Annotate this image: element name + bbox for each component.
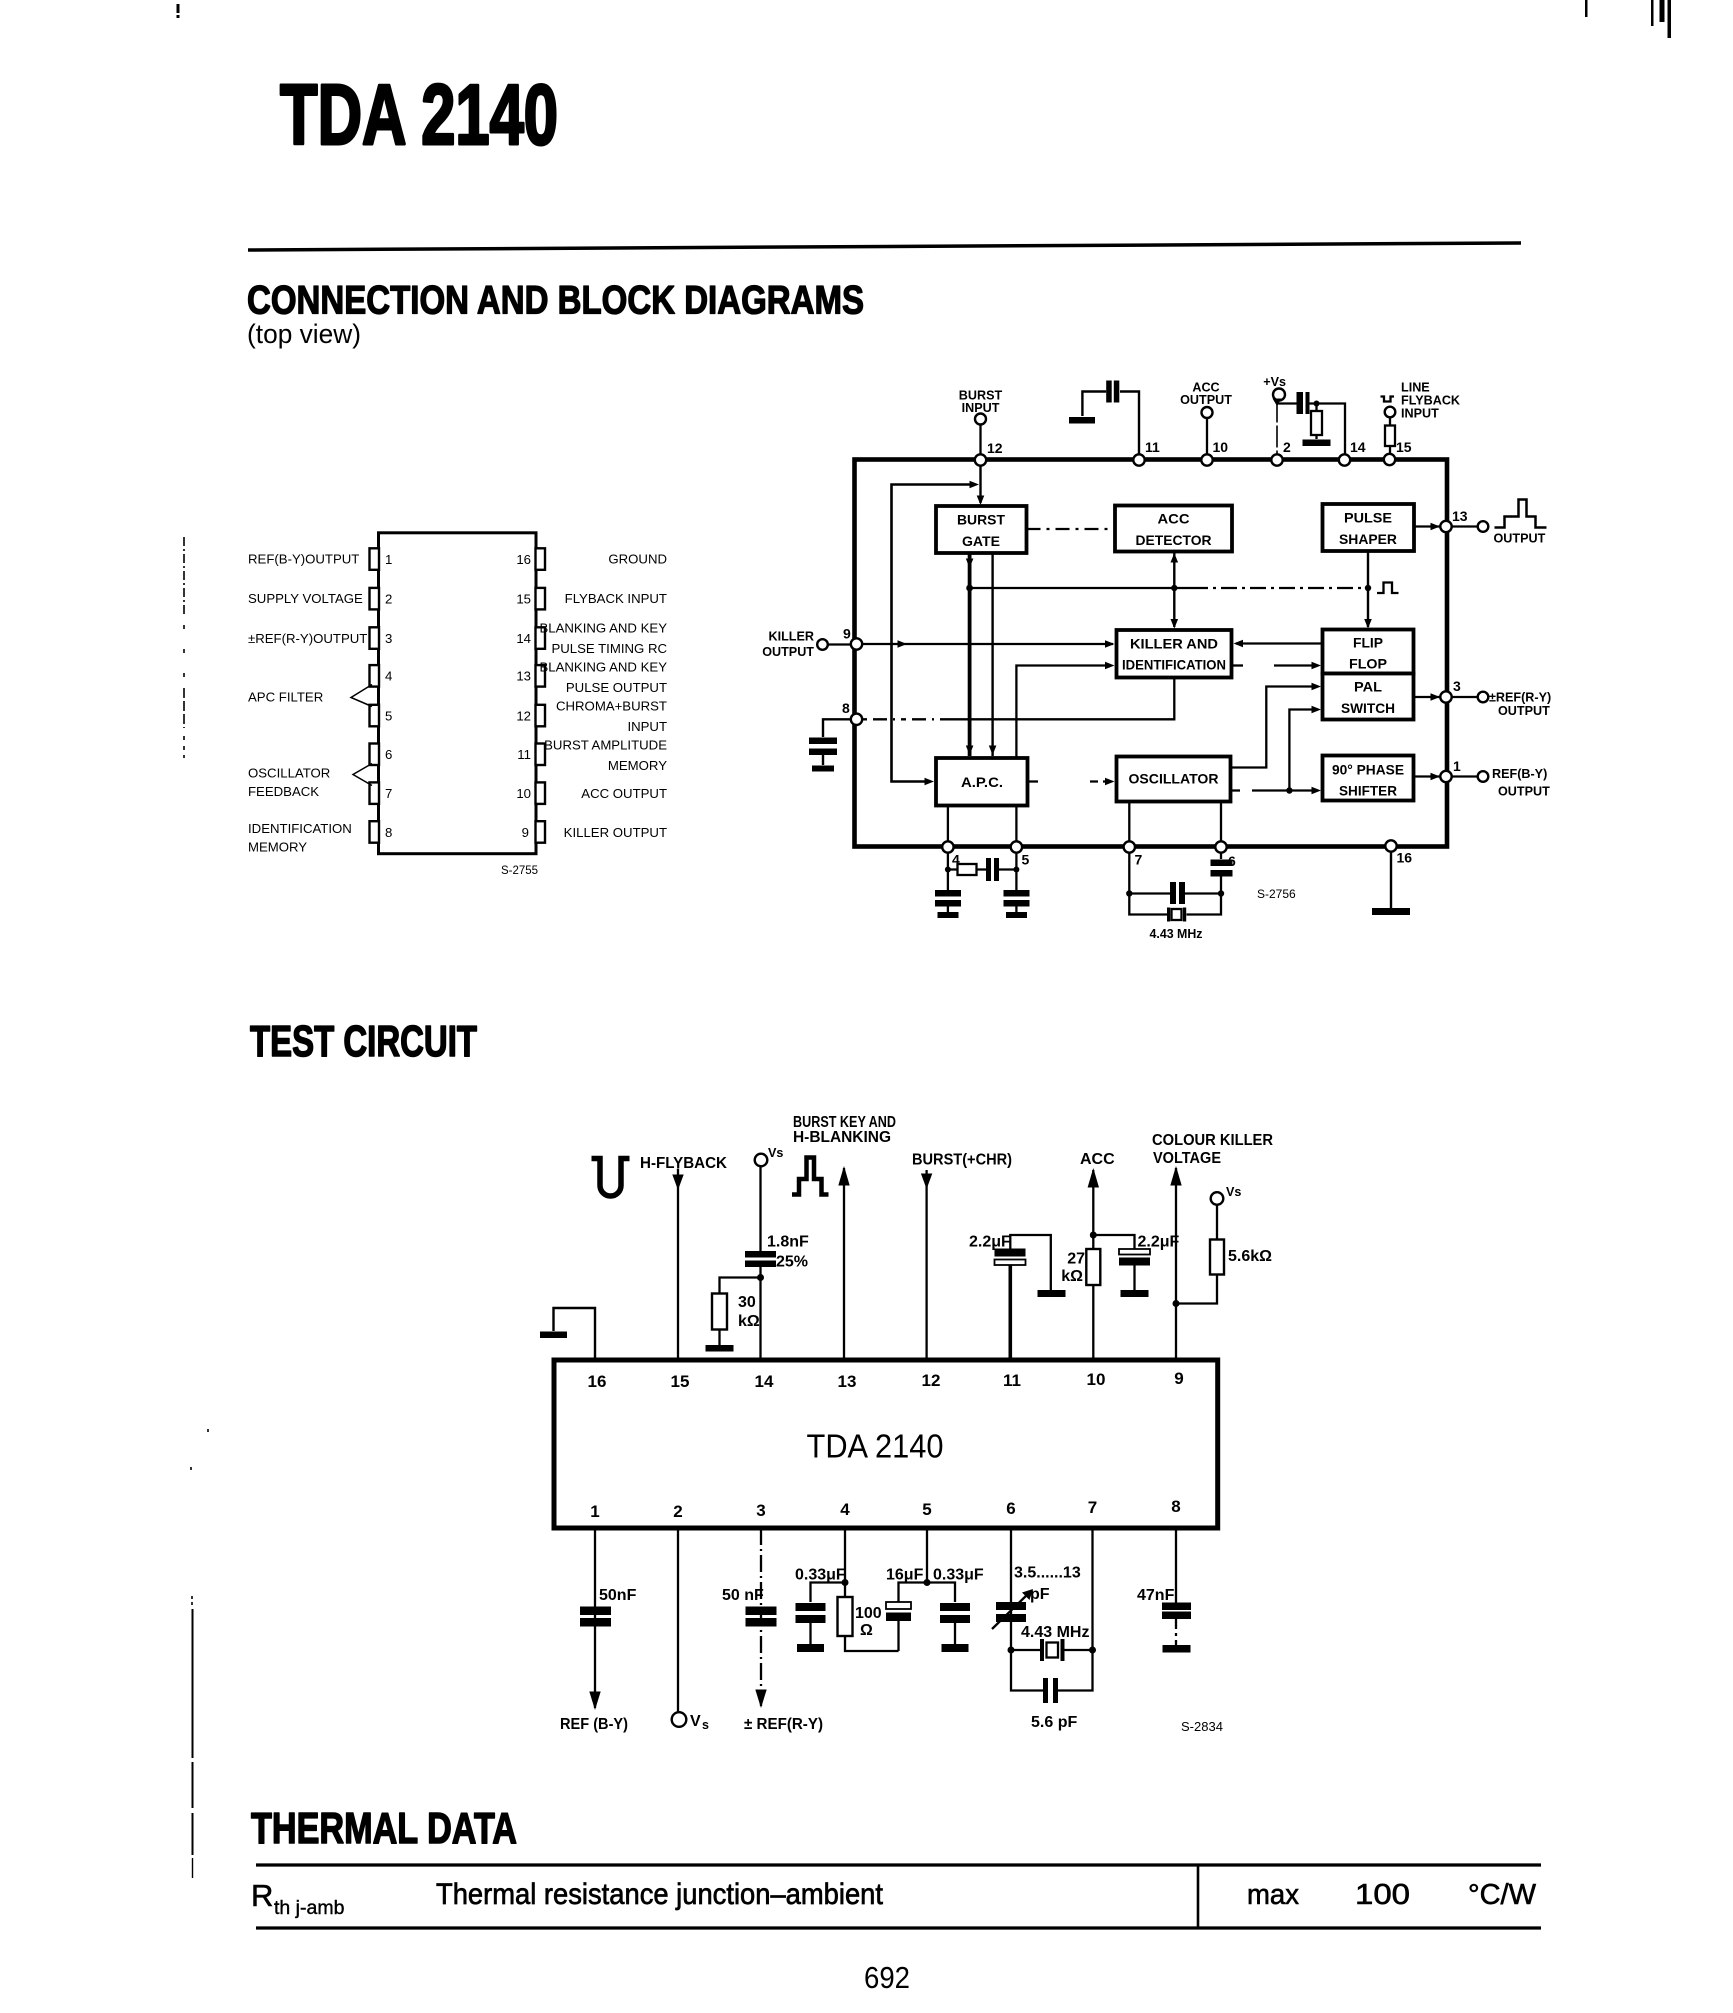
svg-text:LINE: LINE — [1401, 381, 1430, 395]
IC boundary outline — [855, 460, 1448, 847]
wire KILLER to FLIP FLOP lower — [1232, 662, 1322, 670]
svg-text:ACC: ACC — [1080, 1151, 1115, 1168]
svg-text:+Vs: +Vs — [1263, 375, 1286, 389]
junction dot at pin10 — [1090, 1232, 1097, 1239]
svg-text:50 nF: 50 nF — [722, 1587, 764, 1604]
pin circle 3 — [1440, 678, 1461, 703]
svg-text:FEEDBACK: FEEDBACK — [248, 784, 319, 799]
svg-text:TDA 2140: TDA 2140 — [280, 68, 558, 163]
svg-text:16μF: 16μF — [886, 1567, 924, 1584]
pin 9 — [536, 821, 546, 843]
wire PULSE SHAPER to FLIP FLOP — [1364, 551, 1372, 629]
svg-text:1: 1 — [590, 1502, 599, 1521]
block PULSE SHAPER — [1323, 504, 1415, 551]
svg-text:8: 8 — [385, 825, 392, 840]
svg-text:2.2μF: 2.2μF — [1138, 1234, 1180, 1251]
pin circle 14 — [1339, 439, 1366, 466]
svg-text:H-BLANKING: H-BLANKING — [793, 1129, 891, 1146]
pin 14 — [536, 627, 546, 649]
terminal +Vs — [1263, 375, 1286, 455]
terminal Vs at pin 14 — [755, 1146, 784, 1251]
svg-text:2: 2 — [385, 592, 392, 607]
wire OSCILLATOR to PAL SWITCH upper — [1231, 683, 1322, 768]
pin 12 — [536, 705, 546, 727]
svg-text:± REF(R-Y): ± REF(R-Y) — [744, 1716, 823, 1733]
terminal LINE FLYBACK INPUT — [1385, 381, 1460, 421]
wire burst gate key line to pulse shaper column — [970, 585, 1372, 591]
svg-text:S-2755: S-2755 — [501, 865, 538, 877]
wire pin9 to KILLER AND IDENTIFICATION — [862, 640, 1115, 648]
label pin14 BLANKING AND KEY PULSE TIMING RC — [539, 621, 667, 657]
svg-text:COLOUR KILLER: COLOUR KILLER — [1152, 1132, 1273, 1149]
svg-text:KILLER: KILLER — [769, 630, 814, 644]
junction dot at pin9 — [1173, 1300, 1180, 1307]
svg-text:GROUND: GROUND — [608, 552, 667, 567]
svg-text:5: 5 — [1022, 852, 1030, 868]
svg-text:PULSE TIMING RC: PULSE TIMING RC — [551, 641, 667, 656]
svg-text:0.33μF: 0.33μF — [933, 1567, 984, 1584]
svg-text:V: V — [690, 1713, 701, 1730]
left margin dashed line upper — [183, 537, 185, 758]
pin 6 — [370, 744, 380, 766]
pin5 network 16uF and 0.33uF — [886, 1528, 984, 1586]
wire FLIP FLOP to KILLER right edge — [1234, 640, 1323, 648]
svg-text:14: 14 — [516, 631, 531, 646]
svg-text:10: 10 — [1213, 439, 1229, 455]
svg-text:11: 11 — [1145, 439, 1160, 455]
svg-text:DETECTOR: DETECTOR — [1136, 532, 1212, 548]
block 90 PHASE SHIFTER — [1323, 756, 1414, 801]
svg-text:1: 1 — [385, 552, 392, 567]
label pin11 BURST AMPLITUDE MEMORY — [544, 738, 667, 774]
pin circle 12 — [975, 440, 1003, 466]
svg-text:50nF: 50nF — [599, 1587, 637, 1604]
svg-text:s: s — [702, 1718, 709, 1732]
capacitor to ground at pin 8 — [809, 719, 851, 765]
block OSCILLATOR — [1117, 757, 1231, 802]
wire APC to KILLER lower input — [1016, 662, 1114, 757]
svg-text:Ω: Ω — [860, 1622, 873, 1639]
svg-text:10: 10 — [1087, 1370, 1106, 1389]
svg-text:4.43 MHz: 4.43 MHz — [1021, 1624, 1089, 1641]
fork APC FILTER to pins 4 and 5 — [351, 685, 372, 707]
svg-text:pF: pF — [1030, 1586, 1050, 1603]
svg-text:7: 7 — [1088, 1498, 1097, 1517]
svg-text:5.6kΩ: 5.6kΩ — [1228, 1248, 1272, 1265]
svg-text:13: 13 — [1452, 508, 1468, 524]
package body U1 DIP-16 — [379, 533, 537, 854]
wire BURST GATE to APC left line — [968, 553, 972, 756]
svg-text:7: 7 — [1135, 852, 1143, 868]
svg-text:OSCILLATOR: OSCILLATOR — [1129, 771, 1219, 787]
svg-text:3.5......13: 3.5......13 — [1014, 1565, 1081, 1582]
svg-text:BURST AMPLITUDE: BURST AMPLITUDE — [544, 738, 667, 753]
svg-text:°C/W: °C/W — [1468, 1879, 1537, 1911]
svg-text:R: R — [251, 1878, 273, 1913]
svg-text:SHIFTER: SHIFTER — [1339, 783, 1397, 799]
pin circle 4 — [942, 841, 960, 867]
svg-text:25%: 25% — [776, 1254, 808, 1271]
wire OSCILLATOR to 90 PHASE SHIFTER with branch to PAL SWITCH — [1231, 706, 1322, 795]
output waveform glyph — [1495, 500, 1547, 528]
terminal ACC OUTPUT — [1180, 381, 1232, 456]
capacitor 16uF (electrolytic) at pin5 left branch — [886, 1583, 927, 1652]
svg-text:14: 14 — [755, 1372, 774, 1391]
resistor between pins 4 and 5 — [945, 864, 986, 875]
svg-text:CONNECTION AND BLOCK DIAGRAMS: CONNECTION AND BLOCK DIAGRAMS — [247, 279, 864, 323]
svg-text:CHROMA+BURST: CHROMA+BURST — [556, 699, 667, 714]
pin4 network 0.33uF and 100 Ohm — [795, 1528, 849, 1602]
pin 5 — [370, 705, 380, 727]
capacitor 2.2uF at pin 11 — [969, 1234, 1066, 1361]
capacitor to ground below pin 4 — [935, 890, 961, 918]
pin circle 5 — [1011, 841, 1030, 867]
pin 16 — [536, 548, 546, 570]
svg-text:BURST: BURST — [957, 512, 1005, 528]
svg-text:6: 6 — [385, 747, 392, 762]
pin 3 — [370, 627, 380, 649]
svg-text:OUTPUT: OUTPUT — [1494, 532, 1546, 546]
svg-text:Thermal resistance junction–am: Thermal resistance junction–ambient — [436, 1878, 884, 1911]
thermal row values — [1247, 1879, 1537, 1911]
capacitor 1.8nF at pin 14 — [745, 1234, 809, 1361]
svg-text:(top view): (top view) — [247, 319, 361, 349]
RC network below pins 4 and 5 — [948, 847, 1017, 890]
svg-text:13: 13 — [838, 1372, 857, 1391]
pin numbers bottom row — [590, 1497, 1180, 1521]
svg-text:9: 9 — [1174, 1369, 1183, 1388]
svg-text:8: 8 — [1171, 1497, 1180, 1516]
block FLIP FLOP — [1323, 630, 1414, 674]
resistor 100 Ohm below pin 4 — [838, 1597, 899, 1651]
ground below pin8 capacitor — [812, 766, 834, 772]
pin circle 15 — [1384, 439, 1412, 465]
svg-text:OUTPUT: OUTPUT — [1498, 704, 1550, 718]
thermal row: R th j-amb — [251, 1878, 345, 1919]
svg-text:SUPPLY VOLTAGE: SUPPLY VOLTAGE — [248, 591, 363, 606]
svg-text:FLYBACK: FLYBACK — [1401, 394, 1460, 408]
svg-text:TEST CIRCUIT: TEST CIRCUIT — [250, 1017, 477, 1066]
pin7 wire — [1091, 1528, 1093, 1650]
svg-text:27: 27 — [1067, 1251, 1085, 1268]
junction dot at pin14 branch — [757, 1274, 764, 1281]
pin 13 — [536, 665, 546, 687]
svg-text:12: 12 — [922, 1371, 941, 1390]
svg-text:OUTPUT: OUTPUT — [762, 645, 814, 659]
output pin 3 wire and terminal REF(R-Y) — [1414, 691, 1552, 719]
title rule — [248, 243, 1521, 250]
wire feedback loop to pin12 line and APC input — [892, 485, 975, 782]
svg-text:5: 5 — [922, 1500, 931, 1519]
capacitor 5.6pF between pins 6 and 7 — [1011, 1650, 1093, 1731]
wire OSCILLATOR to pin7 — [1128, 802, 1130, 844]
pin15 input wire with arrow — [672, 1169, 683, 1361]
scan mark top-left exclamation — [177, 4, 180, 18]
svg-text:ACC OUTPUT: ACC OUTPUT — [581, 786, 667, 801]
svg-text:3: 3 — [385, 631, 392, 646]
label pin13 BLANKING AND KEY PULSE OUTPUT — [539, 660, 667, 696]
pin 10 — [536, 782, 546, 804]
svg-text:Vs: Vs — [1226, 1185, 1241, 1199]
svg-text:BLANKING AND KEY: BLANKING AND KEY — [539, 660, 667, 675]
svg-text:5: 5 — [385, 709, 392, 724]
svg-text:6: 6 — [1006, 1499, 1015, 1518]
svg-text:11: 11 — [517, 747, 531, 762]
svg-text:OUTPUT: OUTPUT — [1498, 785, 1550, 799]
ground at pin 11 capacitor — [1069, 417, 1095, 424]
svg-text:4: 4 — [952, 852, 960, 868]
wire ACC DETECTOR to KILLER AND IDENTIFICATION — [1171, 552, 1179, 629]
block BURST GATE — [936, 506, 1027, 553]
svg-text:47nF: 47nF — [1137, 1587, 1175, 1604]
pin10 wire with up arrow — [1088, 1168, 1099, 1360]
pin circle 11 — [1133, 439, 1160, 466]
pin2 Vs terminal — [672, 1528, 709, 1732]
capacitor 0.33uF to ground at pin4 — [796, 1603, 826, 1652]
svg-text:ACC: ACC — [1158, 511, 1190, 527]
svg-text:Vs: Vs — [768, 1146, 783, 1160]
pin6 trimmer capacitor 3.5-13pF — [992, 1528, 1081, 1650]
capacitor at pin 6 — [1211, 847, 1233, 894]
svg-text:2: 2 — [1283, 439, 1291, 455]
pin 8 — [370, 821, 380, 843]
terminal KILLER OUTPUT — [762, 630, 851, 660]
crystal 4.43 MHz between pins 6 and 7 — [1008, 1624, 1097, 1661]
wire pin8 to KILLER bottom — [862, 679, 1174, 720]
pin circle 8 — [842, 700, 862, 725]
svg-text:S-2834: S-2834 — [1181, 1719, 1223, 1734]
svg-text:16: 16 — [1397, 850, 1413, 866]
pin 1 — [370, 548, 380, 570]
svg-text:MEMORY: MEMORY — [248, 840, 307, 855]
svg-text:BURST(+CHR): BURST(+CHR) — [912, 1152, 1012, 1169]
pin16 wire to ground — [540, 1308, 595, 1360]
svg-text:REF(B-Y)OUTPUT: REF(B-Y)OUTPUT — [248, 552, 359, 567]
pin circle 6 — [1215, 841, 1236, 869]
ground at pin 16 — [1372, 847, 1410, 915]
svg-text:KILLER OUTPUT: KILLER OUTPUT — [564, 825, 667, 840]
fork OSCILLATOR FEEDBACK to pins 6 and 7 — [353, 764, 372, 786]
capacitor 0.33uF to ground at pin5 right branch — [927, 1583, 970, 1653]
pin 7 — [370, 782, 380, 804]
wire APC to OSCILLATOR — [1028, 778, 1115, 786]
pin circle 1 — [1440, 758, 1461, 782]
label pin12 CHROMA+BURST INPUT — [556, 699, 667, 735]
block APC — [936, 758, 1028, 806]
pin numbers left column — [385, 552, 392, 840]
pin circle 13 — [1440, 508, 1467, 532]
svg-text:15: 15 — [516, 592, 531, 607]
svg-text:REF(B-Y): REF(B-Y) — [1492, 767, 1547, 781]
capacitor to ground below pin 5 — [1004, 890, 1030, 918]
pin circle 2 — [1271, 439, 1291, 466]
svg-text:REF (B-Y): REF (B-Y) — [560, 1716, 628, 1733]
svg-text:15: 15 — [1396, 439, 1412, 455]
svg-text:0.33μF: 0.33μF — [795, 1567, 846, 1584]
pin circle 9 — [843, 626, 862, 650]
svg-text:11: 11 — [1003, 1371, 1021, 1390]
pin 11 — [536, 744, 546, 766]
svg-text:INPUT: INPUT — [627, 719, 667, 734]
series capacitor between pins 7 and 6 — [1129, 882, 1221, 904]
svg-text:4: 4 — [840, 1500, 850, 1519]
flyback pulse glyph — [1381, 397, 1395, 402]
pin13 input wire with up arrow — [838, 1166, 849, 1360]
label pin8 IDENTIFICATION MEMORY — [248, 821, 352, 855]
wire BURST GATE to ACC DETECTOR dashed — [1027, 528, 1114, 530]
svg-text:8: 8 — [842, 700, 850, 716]
pin1 output 50nF REF(B-Y) — [560, 1528, 637, 1733]
resistor 27 kOhm at pin 10 — [1061, 1249, 1100, 1285]
block PAL SWITCH — [1323, 674, 1414, 720]
capacitor 2.2uF to ground right of pin 10 — [1093, 1234, 1179, 1298]
svg-text:APC FILTER: APC FILTER — [248, 690, 323, 705]
svg-text:16: 16 — [516, 552, 531, 567]
svg-text:3: 3 — [756, 1501, 765, 1520]
svg-text:7: 7 — [385, 786, 392, 801]
svg-text:GATE: GATE — [962, 533, 1000, 549]
svg-text:9: 9 — [843, 626, 851, 642]
scan marks top-right bars — [1585, 0, 1671, 38]
svg-text:100: 100 — [855, 1605, 882, 1622]
capacitor from +Vs to pin 14 — [1278, 392, 1346, 455]
svg-text:10: 10 — [516, 786, 531, 801]
svg-text:PULSE OUTPUT: PULSE OUTPUT — [566, 680, 667, 695]
terminal Vs with resistor 5.6k to pin 9 — [1176, 1185, 1272, 1304]
svg-text:30: 30 — [738, 1294, 756, 1311]
svg-text:H-FLYBACK: H-FLYBACK — [640, 1155, 727, 1172]
thermal table frame — [256, 1864, 1541, 1930]
resistor 30 kOhm to ground — [706, 1278, 761, 1352]
svg-text:±REF(R-Y)OUTPUT: ±REF(R-Y)OUTPUT — [248, 631, 367, 646]
svg-text:max: max — [1247, 1879, 1299, 1911]
svg-text:4.43 MHz: 4.43 MHz — [1150, 927, 1203, 941]
output pin 13 wire and terminal — [1414, 521, 1488, 532]
pin8 capacitor 47nF to ground — [1137, 1528, 1191, 1653]
H-FLYBACK waveform glyph — [592, 1159, 630, 1197]
svg-text:3: 3 — [1453, 678, 1461, 694]
svg-text:4: 4 — [385, 669, 392, 684]
svg-text:OUTPUT: OUTPUT — [1180, 393, 1232, 407]
svg-text:FLOP: FLOP — [1349, 656, 1387, 672]
svg-text:THERMAL DATA: THERMAL DATA — [251, 1804, 517, 1853]
svg-text:TDA 2140: TDA 2140 — [807, 1428, 944, 1465]
terminal BURST INPUT — [959, 389, 1003, 456]
svg-text:OSCILLATOR: OSCILLATOR — [248, 766, 330, 781]
svg-text:16: 16 — [588, 1372, 607, 1391]
ground below resistor — [1303, 440, 1331, 447]
pin3 output 50nF REF(R-Y) — [722, 1528, 823, 1733]
svg-text:90° PHASE: 90° PHASE — [1332, 762, 1404, 778]
pin numbers right column — [516, 552, 531, 840]
svg-text:5.6 pF: 5.6 pF — [1031, 1714, 1077, 1731]
pin 4 — [370, 665, 380, 687]
pin circle 7 — [1124, 841, 1143, 867]
svg-text:FLYBACK INPUT: FLYBACK INPUT — [565, 591, 667, 606]
pin circle 16 — [1385, 840, 1412, 865]
svg-text:PULSE: PULSE — [1344, 510, 1392, 526]
crystal 4.43 MHz — [1129, 894, 1221, 922]
svg-text:SHAPER: SHAPER — [1339, 531, 1397, 547]
wire APC to pin4 — [947, 806, 949, 844]
svg-text:MEMORY: MEMORY — [608, 758, 667, 773]
capacitor to ground at pin 11 — [1082, 381, 1139, 456]
svg-text:INPUT: INPUT — [1401, 407, 1439, 421]
burst key waveform glyph — [792, 1158, 829, 1195]
svg-text:A.P.C.: A.P.C. — [961, 774, 1003, 790]
svg-text:kΩ: kΩ — [738, 1313, 760, 1330]
svg-text:13: 13 — [516, 669, 531, 684]
svg-text:FLIP: FLIP — [1353, 635, 1383, 651]
svg-text:BLANKING AND KEY: BLANKING AND KEY — [539, 621, 667, 636]
crystal network below pins 7 and 6 — [1126, 847, 1224, 897]
svg-text:IDENTIFICATION: IDENTIFICATION — [1122, 657, 1226, 673]
svg-text:100: 100 — [1355, 1879, 1410, 1911]
svg-text:12: 12 — [516, 709, 531, 724]
svg-text:SWITCH: SWITCH — [1341, 700, 1395, 716]
wire APC to pin5 — [1015, 806, 1017, 844]
svg-text:15: 15 — [671, 1372, 690, 1391]
svg-text:PAL: PAL — [1354, 679, 1382, 695]
resistor at pin 15 — [1385, 417, 1395, 454]
svg-text:9: 9 — [522, 825, 529, 840]
label BURST KEY AND H-BLANKING — [793, 1114, 896, 1146]
pin 2 — [370, 588, 380, 610]
svg-text:±REF(R-Y): ±REF(R-Y) — [1489, 691, 1551, 705]
pin 15 — [536, 588, 546, 610]
block ACC DETECTOR — [1115, 506, 1232, 552]
capacitor between pins 4 and 5 — [986, 858, 1019, 881]
wire OSCILLATOR to pin6 — [1220, 802, 1222, 844]
wire BURST GATE to APC right line — [991, 553, 993, 756]
label pins6-7 OSCILLATOR FEEDBACK — [248, 766, 330, 800]
label COLOUR KILLER VOLTAGE — [1152, 1132, 1273, 1167]
waveform key pulse glyph — [1377, 583, 1399, 594]
pin circle 10 — [1201, 439, 1228, 466]
svg-text:14: 14 — [1350, 439, 1366, 455]
svg-text:VOLTAGE: VOLTAGE — [1153, 1150, 1221, 1167]
output pin 1 wire and terminal REF(B-Y) — [1414, 767, 1551, 799]
svg-text:6: 6 — [1228, 853, 1236, 869]
svg-text:S-2756: S-2756 — [1257, 887, 1296, 901]
svg-text:2.2μF: 2.2μF — [969, 1234, 1011, 1251]
svg-text:KILLER AND: KILLER AND — [1130, 636, 1218, 652]
svg-text:kΩ: kΩ — [1061, 1268, 1083, 1285]
svg-text:IDENTIFICATION: IDENTIFICATION — [248, 821, 352, 836]
svg-text:692: 692 — [864, 1960, 910, 1995]
resistor to ground near pin 14 — [1311, 404, 1322, 440]
IC body TDA 2140 — [554, 1360, 1218, 1528]
left margin line lower — [191, 1429, 208, 1878]
pin12 input wire with down arrow — [921, 1170, 932, 1360]
block KILLER AND IDENTIFICATION — [1117, 630, 1232, 678]
pin numbers top row — [588, 1369, 1184, 1391]
svg-text:1: 1 — [1453, 758, 1461, 774]
svg-text:12: 12 — [987, 440, 1003, 456]
wire pin12 down into BURST GATE — [979, 460, 981, 503]
junction dot after capacitor — [1314, 401, 1320, 407]
svg-text:1.8nF: 1.8nF — [767, 1234, 809, 1251]
svg-text:2: 2 — [673, 1502, 682, 1521]
svg-text:th j-amb: th j-amb — [274, 1897, 345, 1919]
pin9 wire with up arrow — [1170, 1166, 1181, 1360]
